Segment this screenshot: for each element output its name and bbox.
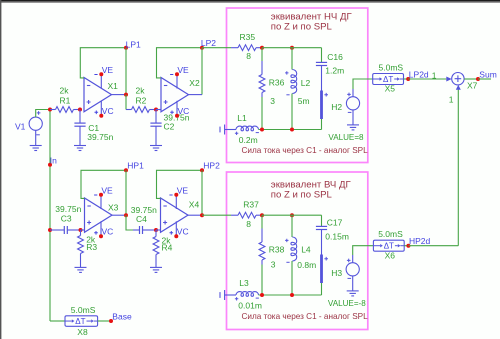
node HP2d [406, 236, 430, 248]
resistor R1 [50, 107, 80, 113]
svg-text:39.75n: 39.75n [87, 132, 113, 142]
svg-text:R1: R1 [60, 96, 71, 106]
wire X7 output [464, 78, 478, 80]
node top rail2 mid [290, 213, 294, 217]
box: equivalent LF driver (NCh DG) region [227, 8, 368, 163]
text: по Z и по SPL (bottom box) [271, 190, 333, 201]
op-amp X2 [161, 65, 200, 118]
svg-text:C17: C17 [327, 217, 343, 227]
label R2 2k [136, 85, 147, 105]
capacitor C16 [316, 48, 327, 91]
svg-text:X5: X5 [385, 84, 396, 94]
wire X1 out down to R2 [125, 95, 127, 110]
wire sense bar to bottom rail2 [321, 283, 323, 295]
svg-text:R37: R37 [243, 200, 259, 210]
ground under C2 [150, 146, 162, 151]
node bottom rail2 left [260, 293, 264, 297]
label R4 2k [162, 236, 173, 253]
svg-text:X6: X6 [385, 251, 396, 261]
wire top rail2 [262, 214, 322, 216]
svg-text:H3: H3 [331, 268, 342, 278]
text: Сила тока через С1 - аналог SPL (bottom box) [242, 312, 369, 321]
svg-text:HP2: HP2 [203, 160, 220, 170]
label R3 2k [86, 235, 97, 253]
capacitor C2 [150, 110, 161, 146]
label R36 3 [269, 78, 285, 107]
svg-text:Сила тока через С1 - аналог SP: Сила тока через С1 - аналог SPL [242, 146, 369, 155]
label L1 0.2m [237, 113, 257, 145]
svg-text:Sum: Sum [479, 69, 496, 79]
current sense bar of H2 [320, 91, 328, 120]
source H3 [331, 259, 359, 279]
label C3 value [55, 204, 81, 223]
label L2 5m [298, 78, 311, 106]
label R35 8 [240, 32, 256, 61]
svg-text:по Z и по SPL: по Z и по SPL [271, 190, 333, 201]
svg-text:0.01m: 0.01m [238, 301, 262, 311]
svg-text:VALUE=-8: VALUE=-8 [328, 299, 366, 308]
label C16 1.2m [325, 52, 344, 75]
resistor R35 [231, 45, 262, 51]
svg-text:R3: R3 [86, 242, 97, 252]
wire V1 to input node [36, 110, 50, 118]
op-amp X3 [85, 185, 119, 238]
wire HP2 down to X4 output [201, 170, 203, 215]
block X6 [373, 240, 404, 251]
node Sum [476, 69, 497, 81]
node LP2d [406, 70, 437, 81]
window frame left edge [0, 0, 1, 339]
wire HP2d to summer riser [408, 245, 458, 247]
ground under C1 [74, 146, 86, 151]
wire input bus to X8 [50, 320, 65, 322]
summer X7 [452, 73, 478, 91]
svg-text:R35: R35 [240, 32, 256, 42]
resistor R4 [153, 230, 159, 267]
svg-text:VC: VC [177, 226, 189, 236]
label C17 0.15m [325, 217, 349, 241]
wire C4 node into X4 input [156, 229, 161, 231]
svg-text:по Z и по SPL: по Z и по SPL [271, 22, 333, 33]
node C3 left junction [48, 228, 52, 232]
block X8 [65, 316, 98, 327]
wire sense bar to bottom rail [321, 119, 323, 130]
wire H3 to X6 [353, 246, 374, 263]
op-amp X4 [161, 185, 200, 238]
svg-text:In: In [50, 156, 57, 166]
node C3/R3 junction [79, 228, 83, 232]
capacitor C17 [316, 215, 327, 254]
svg-text:LP2: LP2 [201, 38, 216, 48]
ground under R3 [75, 267, 87, 272]
wire X6 up into summer [449, 85, 461, 246]
svg-text:Сила тока через С1 - аналог SP: Сила тока через С1 - аналог SPL [242, 312, 369, 321]
inductor L3 [220, 290, 259, 301]
node X3 output junction [124, 213, 128, 217]
svg-text:C4: C4 [136, 214, 147, 224]
svg-text:VC: VC [102, 226, 114, 236]
resistor R3 [78, 230, 84, 267]
label R1 2k [60, 85, 71, 105]
svg-text:ΔT: ΔT [75, 317, 85, 326]
wire top rail [262, 47, 322, 49]
wire C2 node into X2 input [156, 109, 161, 111]
svg-text:VE: VE [102, 65, 114, 75]
ground under H2 [347, 110, 359, 130]
ground under H3 [347, 276, 359, 296]
ground under V1 [30, 130, 42, 150]
ground under R4 [150, 267, 162, 272]
label C1 value [87, 123, 113, 142]
label C2 value [164, 113, 190, 132]
source V1 [15, 111, 42, 135]
label VALUE=-8 [328, 299, 366, 308]
text: title эквивалент НЧ ДГ [271, 12, 353, 23]
wire X1 output [112, 94, 127, 96]
wire into X3 input [81, 229, 85, 231]
wire X2 output [189, 94, 203, 96]
capacitor C3 [50, 226, 81, 234]
svg-text:V1: V1 [15, 122, 26, 132]
label R38 3 [269, 245, 285, 270]
svg-text:8: 8 [246, 51, 251, 61]
wire bottom rail2 [259, 294, 322, 296]
wire X4 out to R37 [202, 214, 231, 216]
wire X4 feedback loop [157, 170, 203, 198]
wire X3 feedback loop [81, 170, 126, 198]
label VALUE=8 [328, 133, 364, 142]
inductor L2 [285, 48, 297, 130]
wire X5 output [404, 78, 409, 80]
svg-text:1.2m: 1.2m [325, 66, 344, 76]
svg-text:5.0mS: 5.0mS [71, 305, 96, 315]
svg-text:LP1: LP1 [126, 39, 141, 49]
capacitor C4 [133, 226, 156, 234]
text: по Z и по SPL (top box) [271, 22, 333, 33]
svg-text:LP2d: LP2d [409, 70, 429, 80]
svg-text:1: 1 [449, 95, 454, 105]
capacitor C1 [74, 110, 85, 146]
op-amp X1 [84, 65, 118, 118]
node LP2 [200, 38, 216, 50]
wire HP1 down to X3 output [125, 170, 127, 215]
wire X3 out down to C4 [126, 215, 133, 230]
node top rail left [260, 46, 264, 50]
svg-text:L4: L4 [301, 245, 311, 255]
node C2 junction [154, 108, 158, 112]
node bottom rail mid [290, 128, 294, 132]
resistor R37 [231, 212, 262, 218]
wire X6 output [404, 245, 408, 247]
resistor R2 [126, 107, 156, 113]
node top rail2 left [260, 213, 264, 217]
wire LP1 down to X1 output [125, 48, 127, 95]
wire X3 output [112, 214, 126, 216]
node C1 junction [78, 108, 82, 112]
svg-text:3: 3 [271, 260, 276, 270]
wire bottom rail [259, 129, 322, 131]
svg-text:C3: C3 [61, 213, 72, 223]
node junction R1/C3 bus [48, 108, 52, 112]
node HP1 [124, 160, 144, 172]
svg-text:3: 3 [270, 96, 275, 106]
label C4 value [131, 205, 157, 224]
wire input bus from node to X8 row [49, 110, 51, 322]
node Base [109, 311, 132, 323]
wire H2 to X5 [353, 79, 373, 97]
svg-text:ΔT: ΔT [383, 75, 393, 84]
svg-text:C16: C16 [327, 52, 343, 62]
svg-text:L2: L2 [301, 78, 311, 88]
resistor R36 [259, 48, 265, 130]
block X5 [373, 74, 404, 85]
node bottom rail left [260, 128, 264, 132]
box: equivalent HF driver (VCh DG) region [227, 172, 368, 330]
svg-text:X1: X1 [108, 81, 119, 91]
svg-text:X7: X7 [467, 81, 478, 91]
window frame top edge [0, 0, 500, 3]
current sense bar of H3 [320, 255, 328, 284]
node top rail mid [290, 46, 294, 50]
svg-text:R38: R38 [269, 245, 285, 255]
text: title эквивалент ВЧ ДГ [271, 180, 352, 191]
svg-text:H2: H2 [331, 102, 342, 112]
wire after Sum [478, 78, 491, 80]
inductor L4 [285, 215, 297, 295]
svg-text:VE: VE [101, 185, 113, 195]
svg-text:ΔT: ΔT [384, 242, 394, 251]
svg-text:5.0mS: 5.0mS [378, 229, 403, 239]
svg-text:5.0mS: 5.0mS [379, 62, 404, 72]
wire X2 feedback loop [157, 48, 203, 78]
node X4 output junction [200, 213, 204, 217]
svg-text:5m: 5m [298, 96, 310, 106]
svg-text:R4: R4 [162, 243, 173, 253]
svg-text:0.2m: 0.2m [239, 135, 258, 145]
svg-text:8: 8 [246, 219, 251, 229]
svg-text:VE: VE [177, 65, 189, 75]
svg-text:VE: VE [177, 185, 189, 195]
svg-text:VALUE=8: VALUE=8 [328, 133, 364, 142]
wire X8 output [98, 320, 111, 322]
label L4 0.8m [297, 245, 316, 270]
wire LP2 to R35 [202, 47, 231, 49]
svg-text:X4: X4 [189, 199, 200, 209]
text: Сила тока через С1 - аналог SPL (top box) [242, 146, 369, 155]
svg-text:R36: R36 [269, 78, 285, 88]
svg-text:C2: C2 [164, 122, 175, 132]
source H2 [331, 93, 359, 113]
svg-text:2k: 2k [60, 85, 70, 95]
node bottom rail2 mid [290, 293, 294, 297]
svg-text:L3: L3 [239, 278, 249, 288]
svg-text:R2: R2 [136, 96, 147, 106]
node HP2 [200, 160, 220, 172]
svg-text:Base: Base [112, 311, 132, 321]
svg-text:L1: L1 [237, 113, 247, 123]
svg-text:X2: X2 [189, 78, 200, 88]
node LP1 [124, 39, 141, 49]
wire X1 feedback loop [80, 48, 126, 78]
wire LP2 down to X2 output [201, 48, 203, 95]
node X1 output junction [124, 93, 128, 97]
wire X4 output [188, 214, 202, 216]
svg-text:2k: 2k [136, 85, 146, 95]
label R37 8 [243, 200, 259, 229]
wire LP2d to summer [408, 77, 452, 82]
label X8 5.0mS [71, 305, 96, 337]
svg-text:X8: X8 [77, 327, 88, 337]
inductor L1 [220, 125, 259, 136]
svg-text:0.15m: 0.15m [325, 232, 349, 242]
svg-text:VC: VC [102, 106, 114, 116]
node In [48, 156, 57, 167]
svg-text:VC: VC [178, 106, 190, 116]
resistor R38 [259, 215, 265, 295]
svg-text:0.8m: 0.8m [297, 260, 316, 270]
node C4/R4 junction [154, 228, 158, 232]
svg-text:X3: X3 [108, 203, 119, 213]
svg-text:HP1: HP1 [127, 160, 144, 170]
label L3 0.01m [238, 278, 262, 311]
svg-text:HP2d: HP2d [409, 236, 431, 246]
label X5 5.0mS [379, 62, 404, 93]
label X6 5.0mS [378, 229, 403, 260]
